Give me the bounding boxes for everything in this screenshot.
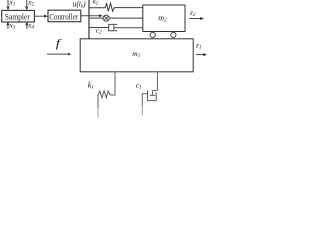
svg-text:k2: k2: [93, 0, 99, 7]
label f: [56, 37, 63, 50]
svg-text:Controller: Controller: [49, 12, 78, 21]
sampler block: [2, 10, 35, 22]
arrow z2: [189, 17, 204, 20]
input stub x4: [25, 21, 28, 28]
damper c1: [142, 72, 157, 116]
damper c2: [89, 24, 143, 30]
wire controller to actuator (arrow): [81, 14, 103, 17]
input stub x3: [6, 21, 9, 28]
svg-text:x2: x2: [27, 0, 34, 7]
arrow f: [47, 53, 72, 56]
controller block: [48, 10, 81, 22]
wall post on m1: [88, 0, 90, 39]
wire sampler to controller: [34, 15, 48, 18]
spring k1: [98, 72, 115, 108]
node stub wall to actuator: [89, 17, 103, 19]
mass m1 block: [80, 39, 193, 72]
mass m2 block: [143, 5, 185, 32]
actuator circle with X: [103, 15, 109, 21]
wheel left: [150, 32, 155, 37]
wire actuator to m2: [109, 17, 143, 19]
svg-text:u(tk): u(tk): [73, 0, 86, 10]
svg-text:x1: x1: [8, 0, 15, 7]
spring k2: [89, 3, 143, 11]
input stub x1: [6, 0, 9, 10]
input stub x2: [25, 0, 28, 10]
arrow z1: [196, 53, 207, 56]
wheel right: [171, 32, 176, 37]
